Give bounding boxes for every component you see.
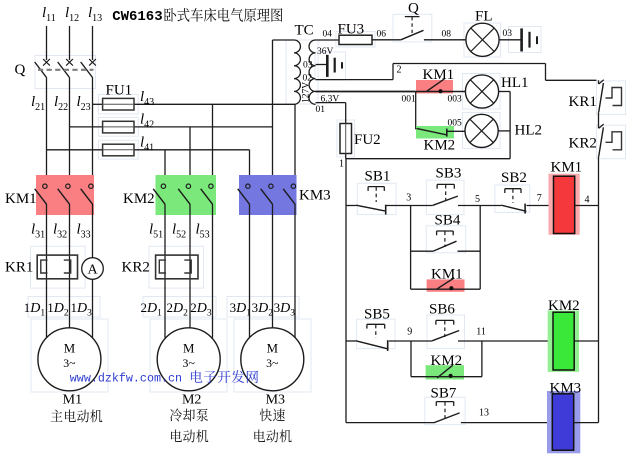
wire l22	[69, 78, 71, 185]
wire HL2 out	[498, 130, 510, 132]
lamp FL	[466, 9, 499, 57]
svg-text:4: 4	[585, 195, 590, 206]
faint placement boxes (decorative)	[35, 56, 96, 89]
svg-text:36V: 36V	[317, 47, 334, 57]
wire TC primary top lead	[273, 39, 295, 41]
fuse FU3	[338, 22, 373, 45]
svg-text:SB4: SB4	[435, 213, 461, 229]
svg-text:2: 2	[397, 65, 402, 76]
wire M3 pole3	[294, 204, 296, 338]
wire l13 drop	[92, 26, 94, 60]
wire line 1 (lamp return)	[346, 158, 510, 160]
svg-text:M: M	[183, 342, 194, 356]
wire to KM2 pole2	[189, 127, 191, 184]
wire 6.3V line	[316, 91, 416, 93]
wire 001 drop	[415, 92, 417, 130]
svg-text:1: 1	[339, 159, 344, 170]
wire SB2 to coil	[527, 205, 554, 207]
wire M3 pole2	[272, 204, 274, 328]
wire SB7 to coil KM3	[461, 422, 552, 424]
motor M2	[157, 328, 220, 408]
svg-text:KR2: KR2	[122, 260, 150, 276]
overload relay KR2 heaters	[122, 255, 199, 279]
svg-text:3~: 3~	[183, 356, 196, 370]
thermal contact KR2 (NC)	[569, 124, 622, 156]
pushbutton SB2 (NC)	[501, 170, 527, 214]
pushbutton SB6 (NO start)	[429, 302, 459, 341]
svg-text:KM1: KM1	[551, 160, 583, 176]
svg-text:M2: M2	[182, 393, 201, 408]
wire HL1 out	[499, 91, 511, 93]
coil KM2	[548, 298, 580, 372]
contact KM1 (NO aux seal-in)	[411, 267, 481, 292]
svg-text:KM2: KM2	[548, 298, 580, 314]
wire rung2 left	[346, 340, 355, 342]
svg-text:SB5: SB5	[364, 307, 390, 323]
svg-text:13: 13	[479, 408, 489, 419]
label M1 caption 主电动机	[51, 410, 63, 422]
contactor KM2 main contacts	[123, 175, 216, 215]
wire SB3 to node5	[458, 205, 501, 207]
wire line 2 (control feed)	[316, 79, 394, 81]
svg-text:FU2: FU2	[354, 132, 381, 148]
wire l12 drop	[69, 26, 71, 60]
svg-text:9: 9	[407, 327, 412, 338]
contact KM1 (NO, signal lamp)	[416, 67, 466, 93]
wire l11 drop	[46, 26, 48, 60]
wire l52	[189, 204, 191, 328]
wire left control bus	[345, 159, 347, 423]
wire lamp return drop	[509, 92, 511, 159]
switch Q (main 3-pole knife switch)	[15, 59, 96, 78]
svg-text:KM1: KM1	[5, 191, 37, 207]
wire to KM3 pole2 (shared with TC primary)	[272, 40, 274, 184]
label M3 caption 电动机	[254, 430, 265, 442]
wire to KM3 pole1	[249, 150, 251, 185]
wire tap 04	[316, 39, 340, 41]
svg-text:HL1: HL1	[501, 75, 529, 91]
fuse FU2	[340, 124, 381, 154]
ammeter A	[82, 258, 104, 280]
thermal contact KR1 (NC)	[569, 80, 622, 112]
wire FL to ground	[499, 39, 521, 41]
svg-text:Q: Q	[15, 62, 26, 78]
svg-text:M: M	[64, 342, 75, 356]
svg-text:KR2: KR2	[569, 136, 597, 152]
svg-text:001: 001	[402, 95, 417, 105]
coil KM1	[549, 160, 583, 235]
svg-text:SB7: SB7	[431, 386, 457, 402]
svg-text:3~: 3~	[63, 356, 76, 370]
svg-text:KR1: KR1	[5, 260, 33, 276]
wire 06	[372, 39, 401, 41]
wire tap 03	[316, 64, 328, 66]
lamp HL1	[465, 75, 528, 108]
wire coil KM3 to bus	[574, 422, 599, 424]
svg-text:127V: 127V	[302, 82, 312, 103]
pushbutton SB5 (NC stop)	[355, 307, 389, 351]
svg-text:03: 03	[503, 29, 513, 39]
svg-text:HL2: HL2	[515, 123, 543, 139]
overload relay KR1 heaters	[5, 255, 78, 279]
svg-text:SB1: SB1	[365, 169, 391, 185]
svg-text:11: 11	[476, 327, 486, 338]
svg-text:CW6163: CW6163	[112, 9, 162, 25]
ground (lighting circuit)	[522, 28, 537, 51]
svg-text:02: 02	[303, 74, 313, 84]
label M2 caption 电动机	[171, 430, 182, 442]
wire rung1 left	[346, 205, 356, 207]
contact KM2 (NC, signal lamp)	[416, 126, 466, 154]
fuse FU1b (line l42)	[70, 126, 103, 128]
svg-text:KR1: KR1	[569, 94, 597, 110]
watermark www.dzkfw.com.cn 电子开发网	[70, 370, 258, 385]
wire l33 (to ammeter)	[92, 204, 94, 258]
wire FU2 to node 1	[345, 154, 347, 159]
svg-text:KM1: KM1	[423, 67, 455, 83]
wire SB4 row left	[411, 250, 434, 252]
svg-text:M1: M1	[63, 393, 82, 408]
svg-text:FU1: FU1	[106, 83, 133, 99]
wire M3 pole1	[249, 204, 251, 338]
label M3 caption 快速	[260, 409, 272, 422]
wire branch node5 drop	[479, 206, 481, 290]
svg-text:KM3: KM3	[299, 188, 331, 204]
svg-text:003: 003	[448, 95, 463, 105]
wire to KM2 pole1	[164, 150, 166, 185]
svg-text:A: A	[87, 263, 98, 278]
pushbutton SB7 (NO)	[431, 386, 460, 423]
motor M3	[241, 328, 304, 408]
transformer TC	[294, 23, 316, 105]
svg-text:005: 005	[448, 119, 463, 129]
pushbutton SB4 (NO)	[434, 213, 461, 252]
svg-text:KM3: KM3	[550, 381, 582, 397]
ground (36V tap)	[327, 55, 342, 77]
label M2 caption 冷却泵	[170, 408, 182, 421]
pushbutton SB3 (NO start)	[433, 166, 462, 206]
svg-text:06: 06	[377, 30, 387, 40]
wire tap 01	[316, 102, 346, 104]
svg-text:KM1: KM1	[431, 267, 463, 283]
wire coil KM2 to bus	[574, 340, 598, 342]
wire rung3 left	[346, 422, 434, 424]
svg-text:KM2: KM2	[431, 353, 463, 369]
wire l53	[212, 204, 214, 338]
svg-text:M3: M3	[266, 393, 285, 408]
coil KM3	[547, 381, 581, 454]
wire l32	[69, 204, 71, 328]
svg-text:SB6: SB6	[429, 302, 455, 318]
wire to KM2 pole3	[212, 104, 214, 184]
svg-text:01: 01	[316, 105, 326, 115]
wire l31	[46, 204, 48, 338]
contact KM2 (NO aux seal-in)	[411, 353, 482, 380]
wire l21	[46, 78, 48, 185]
svg-text:SB2: SB2	[501, 170, 527, 186]
svg-text:TC: TC	[295, 23, 314, 39]
wire SB6 to coil KM2	[458, 340, 553, 342]
wire branch node9 drop	[410, 341, 412, 377]
svg-text:FL: FL	[475, 9, 493, 25]
contactor KM3 main contacts	[238, 175, 331, 215]
lamp HL2	[465, 114, 542, 147]
svg-text:Q: Q	[408, 1, 419, 17]
motor M1	[38, 328, 101, 408]
svg-text:3: 3	[406, 193, 411, 204]
wire SB1 to node3	[387, 205, 433, 207]
wire l23	[92, 78, 94, 185]
svg-text:7: 7	[537, 193, 542, 204]
wire branch node11 drop	[481, 341, 483, 377]
fuse FU1c (line l41)	[47, 149, 103, 151]
wire to KM3 pole3	[294, 104, 296, 184]
svg-text:03: 03	[303, 61, 313, 71]
svg-text:KM2: KM2	[424, 138, 456, 154]
switch Q (lighting)	[401, 1, 424, 40]
svg-text:KM2: KM2	[123, 191, 155, 207]
wire coil KM1 to bus	[575, 205, 599, 207]
svg-text:M: M	[267, 342, 278, 356]
svg-text:04: 04	[323, 30, 333, 40]
wire branch node3 drop	[410, 206, 412, 290]
svg-text:08: 08	[442, 30, 452, 40]
wire right control bus	[598, 157, 600, 423]
fuse FU1a (line l43)	[93, 103, 103, 105]
wire KR1-KR2	[598, 112, 600, 128]
wire SB5 to node9	[389, 340, 432, 342]
svg-text:3~: 3~	[266, 356, 279, 370]
wire SB4 row right	[458, 250, 481, 252]
wire l51	[164, 204, 166, 338]
pushbutton SB1 (NC stop)	[356, 169, 390, 215]
svg-text:SB3: SB3	[436, 166, 462, 182]
svg-text:FU3: FU3	[338, 22, 365, 38]
svg-text:5: 5	[475, 194, 480, 205]
wire 08	[424, 39, 466, 41]
contactor KM1 main contacts	[5, 175, 94, 215]
svg-text:www.dzkfw.com.cn: www.dzkfw.com.cn	[70, 372, 182, 386]
